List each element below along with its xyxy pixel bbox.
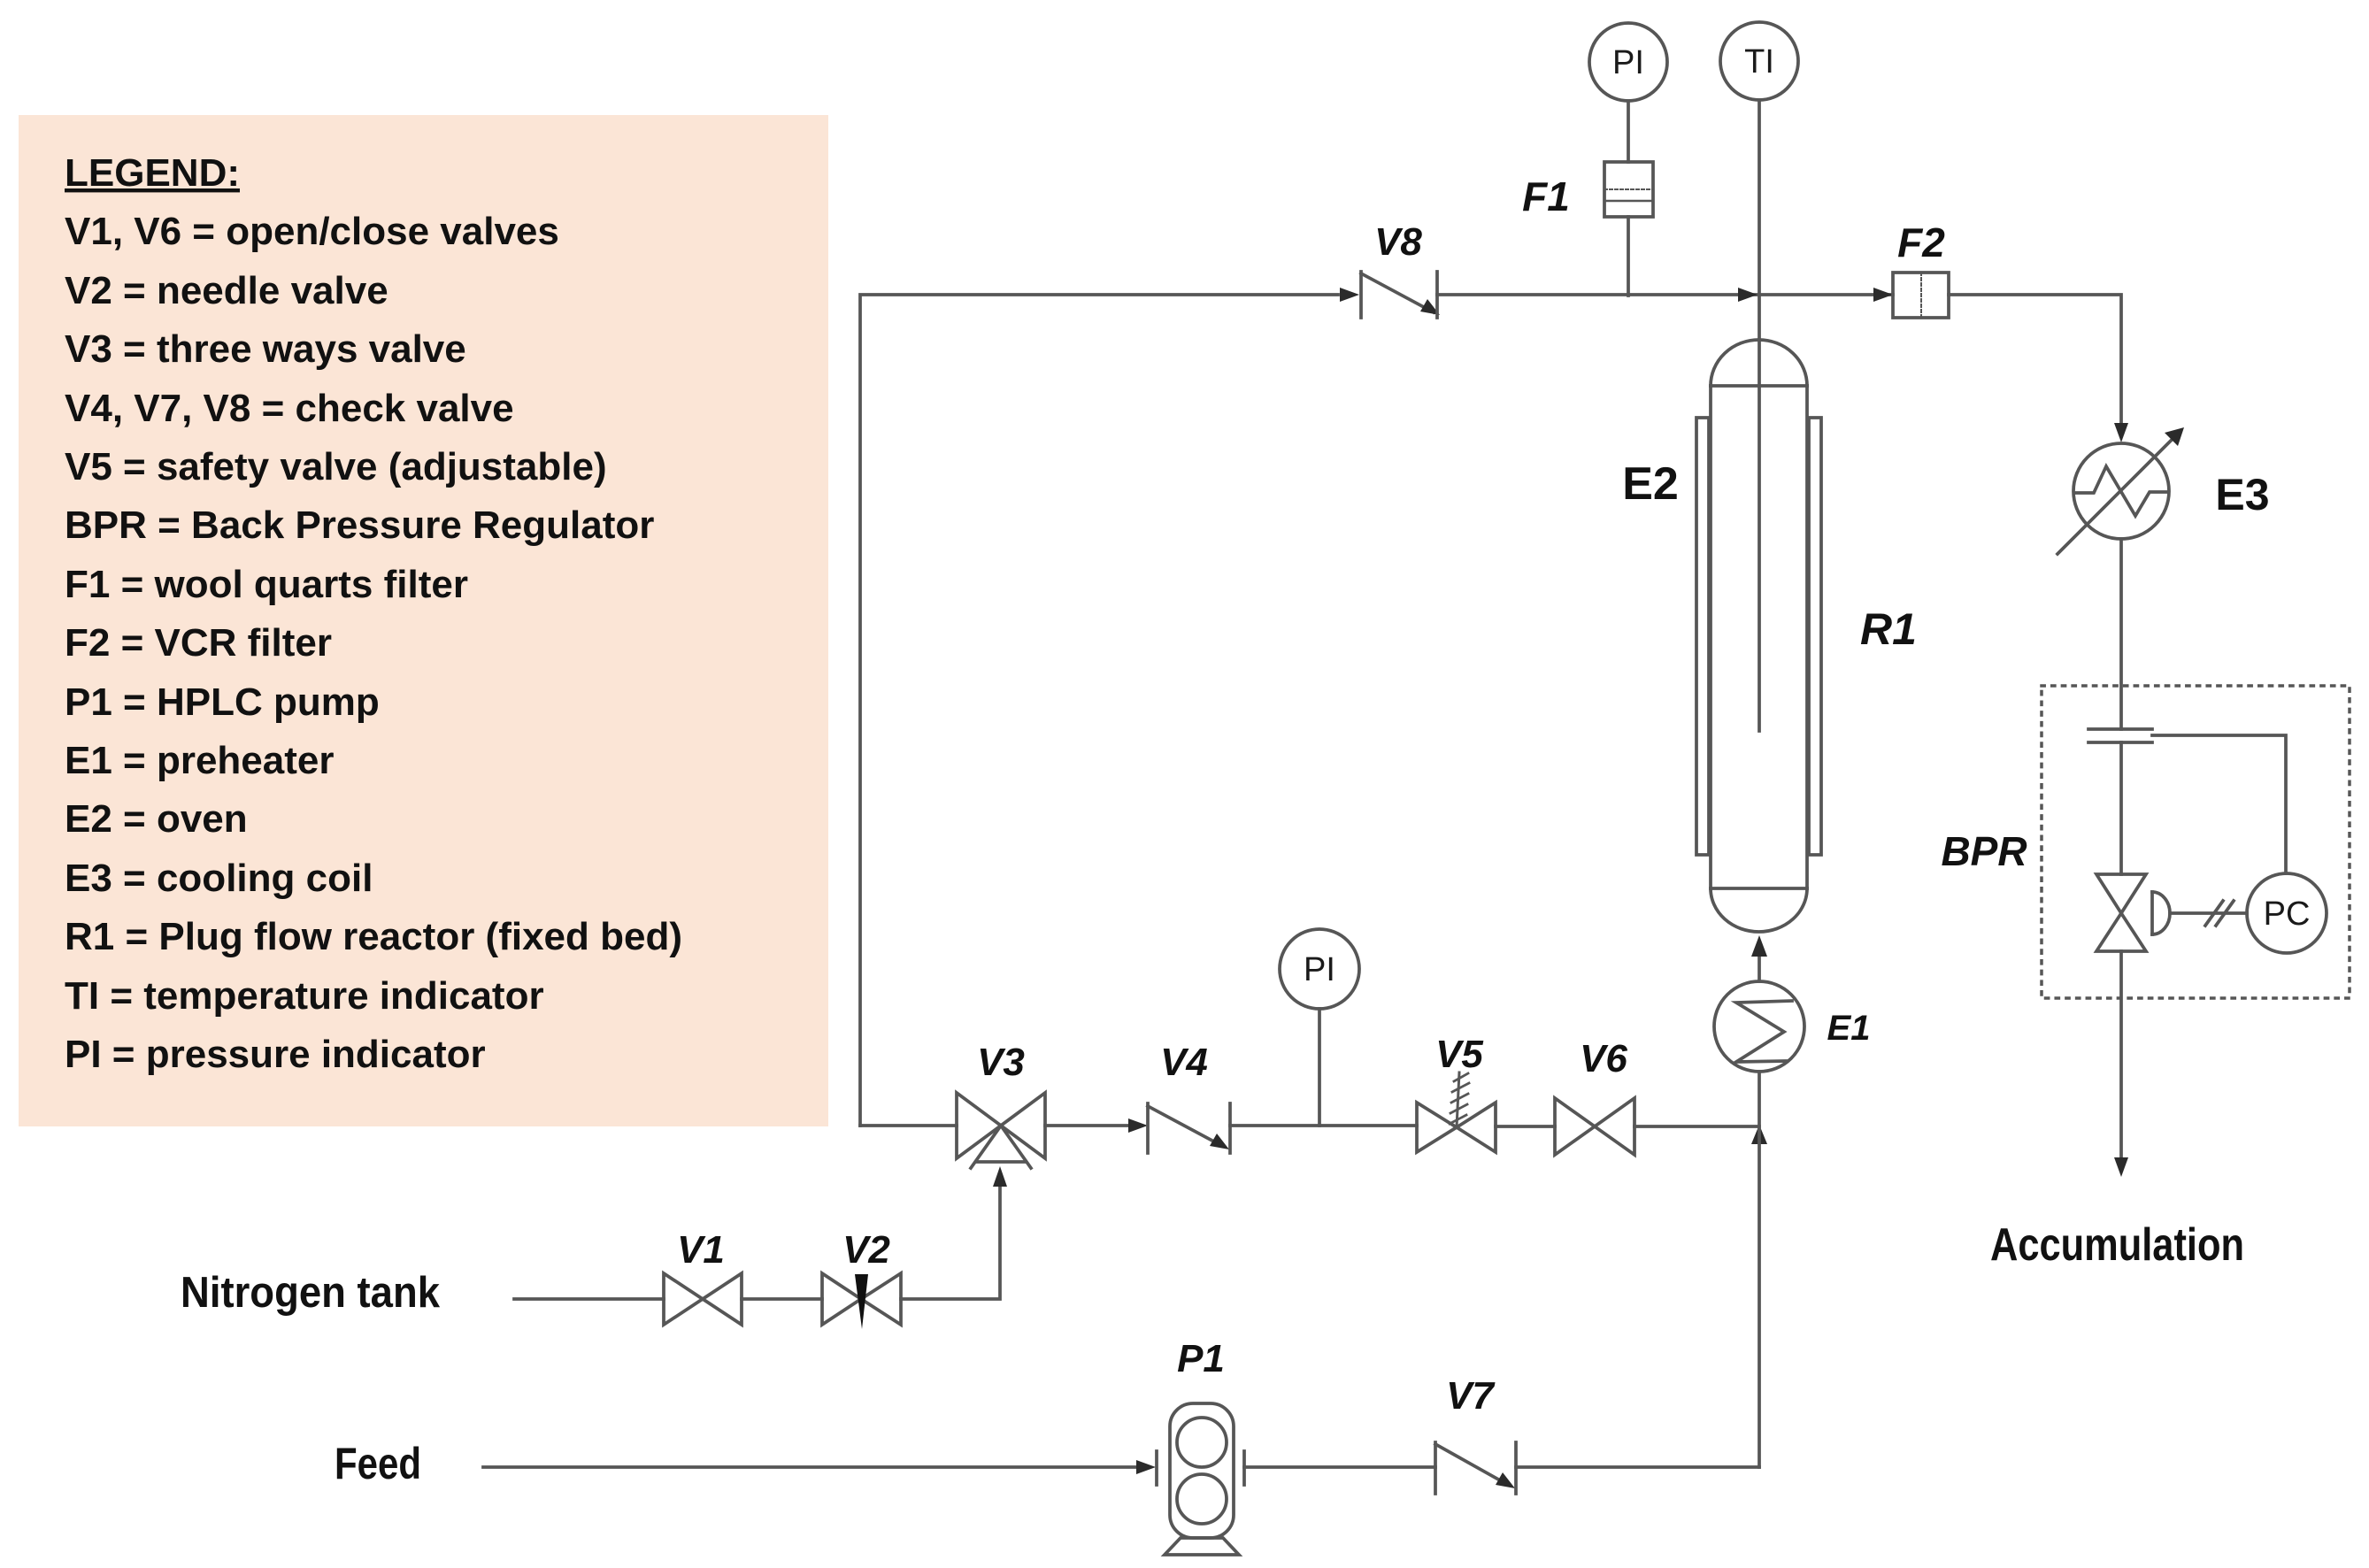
svg-text:F1 = wool quarts filter: F1 = wool quarts filter — [65, 563, 468, 606]
pressure indicator PI (bottom) — [1280, 929, 1359, 1009]
wire V5 to V6 — [1496, 1125, 1555, 1128]
svg-text:P1: P1 — [1177, 1337, 1225, 1380]
wire plates to BPR valve — [2119, 742, 2123, 874]
svg-text:V1: V1 — [677, 1228, 725, 1272]
filter F1 — [1604, 162, 1653, 217]
wire arrow into F2 — [1873, 288, 1893, 302]
wire arrow into V8 — [1340, 288, 1359, 302]
BPR dotted enclosure — [2042, 686, 2350, 998]
svg-text:E1 = preheater: E1 = preheater — [65, 739, 335, 782]
wire V8 to F2 — [1437, 293, 1893, 296]
wire arrow into V3 — [993, 1166, 1007, 1187]
svg-text:V4, V7, V8 = check valve: V4, V7, V8 = check valve — [65, 387, 514, 430]
wire PI to F1 — [1627, 101, 1630, 162]
svg-text:V2 = needle valve: V2 = needle valve — [65, 269, 388, 312]
svg-text:BPR = Back Pressure Regulator: BPR = Back Pressure Regulator — [65, 503, 654, 547]
svg-text:V3: V3 — [977, 1041, 1025, 1084]
svg-text:V3 = three ways valve: V3 = three ways valve — [65, 327, 466, 371]
svg-text:V8: V8 — [1374, 220, 1422, 264]
svg-text:E3 = cooling coil: E3 = cooling coil — [65, 857, 373, 900]
svg-text:R1 = Plug flow reactor (fixed: R1 = Plug flow reactor (fixed bed) — [65, 915, 682, 958]
wire TI thermowell into reactor — [1758, 100, 1761, 731]
svg-text:E2: E2 — [1622, 458, 1679, 510]
wire V3 to V4 — [1045, 1124, 1128, 1127]
wire V4 to V5 — [1230, 1124, 1417, 1127]
svg-text:F1: F1 — [1522, 173, 1570, 219]
actuator — [2152, 892, 2170, 934]
plug flow reactor R1 — [1711, 340, 1807, 932]
wire P1 to V7 — [1244, 1465, 1435, 1469]
pressure indicator PI (top) — [1589, 23, 1667, 101]
BPR control valve — [2096, 874, 2146, 951]
svg-text:V5: V5 — [1435, 1033, 1483, 1076]
filter F2 — [1893, 273, 1949, 318]
wire arrow before TI junction — [1738, 288, 1758, 302]
wire F1 to main line — [1627, 217, 1630, 296]
svg-text:R1: R1 — [1860, 604, 1917, 654]
three ways valve V3 — [957, 1093, 1045, 1168]
wire arrow up at junction — [1751, 1125, 1767, 1144]
legend text block — [65, 151, 682, 1076]
svg-text:V2: V2 — [842, 1228, 890, 1272]
svg-text:LEGEND:: LEGEND: — [65, 151, 240, 195]
svg-text:TI: TI — [1744, 43, 1774, 81]
wire bottom main line V3 to V4 — [860, 1124, 957, 1127]
check valve V7 — [1435, 1442, 1516, 1494]
wire arrow into E3 — [2114, 423, 2128, 442]
wire V1 to V2 — [742, 1297, 822, 1301]
wire E1 to reactor — [1758, 943, 1761, 981]
wire plates to PC — [2152, 735, 2286, 873]
svg-text:PI: PI — [1304, 951, 1335, 988]
svg-text:F2 = VCR filter: F2 = VCR filter — [65, 621, 332, 665]
safety valve V5 — [1417, 1072, 1496, 1152]
wire feed riser — [1758, 1072, 1761, 1467]
signal line to PC — [2170, 901, 2247, 926]
wire arrow into P1 — [1136, 1460, 1156, 1474]
svg-text:Accumulation: Accumulation — [1990, 1219, 2244, 1271]
oven E2 left bar — [1696, 418, 1709, 855]
wire left recycle loop V3 to V8 line — [860, 295, 1338, 1126]
wire arrow into V4 — [1128, 1118, 1148, 1133]
wire arrow accumulation — [2114, 1157, 2128, 1177]
legend box — [19, 115, 828, 1126]
svg-text:Nitrogen tank: Nitrogen tank — [181, 1269, 441, 1317]
svg-text:PC: PC — [2264, 895, 2311, 933]
svg-text:E2 = oven: E2 = oven — [65, 797, 248, 841]
svg-text:TI = temperature indicator: TI = temperature indicator — [65, 974, 544, 1018]
wire V7 to riser — [1516, 1465, 1759, 1469]
svg-text:E3: E3 — [2215, 470, 2269, 519]
svg-text:V7: V7 — [1446, 1374, 1496, 1418]
valve V6 — [1555, 1098, 1634, 1155]
preheater E1 — [1714, 981, 1804, 1072]
BPR diaphragm plates — [2088, 729, 2152, 742]
svg-text:PI = pressure indicator: PI = pressure indicator — [65, 1033, 486, 1076]
svg-text:E1: E1 — [1827, 1009, 1871, 1048]
wire V2 to V3 riser — [901, 1186, 1000, 1299]
wire feed line — [483, 1465, 1136, 1469]
svg-text:Feed: Feed — [335, 1439, 421, 1488]
pressure controller PC — [2247, 873, 2327, 953]
check valve V4 — [1148, 1103, 1230, 1153]
wire V6 to feed riser — [1634, 1125, 1759, 1128]
oven E2 right bar — [1809, 418, 1821, 855]
cooling coil E3 — [2057, 427, 2184, 554]
valve V1 — [664, 1273, 742, 1325]
svg-text:V6: V6 — [1580, 1037, 1627, 1080]
svg-text:P1 = HPLC pump: P1 = HPLC pump — [65, 680, 380, 724]
wire arrow into reactor — [1751, 935, 1767, 957]
svg-text:V5 = safety valve (adjustable): V5 = safety valve (adjustable) — [65, 445, 607, 488]
wire PI stem — [1318, 1009, 1321, 1126]
svg-text:PI: PI — [1612, 44, 1644, 81]
HPLC pump P1 — [1157, 1403, 1244, 1555]
check valve V8 — [1361, 272, 1440, 318]
wire BPR valve to accumulation — [2119, 951, 2123, 1157]
wire E3 to BPR — [2119, 539, 2123, 729]
svg-text:F2: F2 — [1897, 219, 1945, 265]
needle valve V2 — [822, 1273, 901, 1329]
wire nitrogen line — [514, 1297, 664, 1301]
wire F2 to E3 — [1949, 295, 2121, 435]
svg-text:V1, V6 = open/close valves: V1, V6 = open/close valves — [65, 210, 559, 253]
svg-text:V4: V4 — [1160, 1041, 1208, 1084]
temperature indicator TI — [1720, 22, 1798, 100]
svg-text:BPR: BPR — [1941, 828, 2027, 874]
